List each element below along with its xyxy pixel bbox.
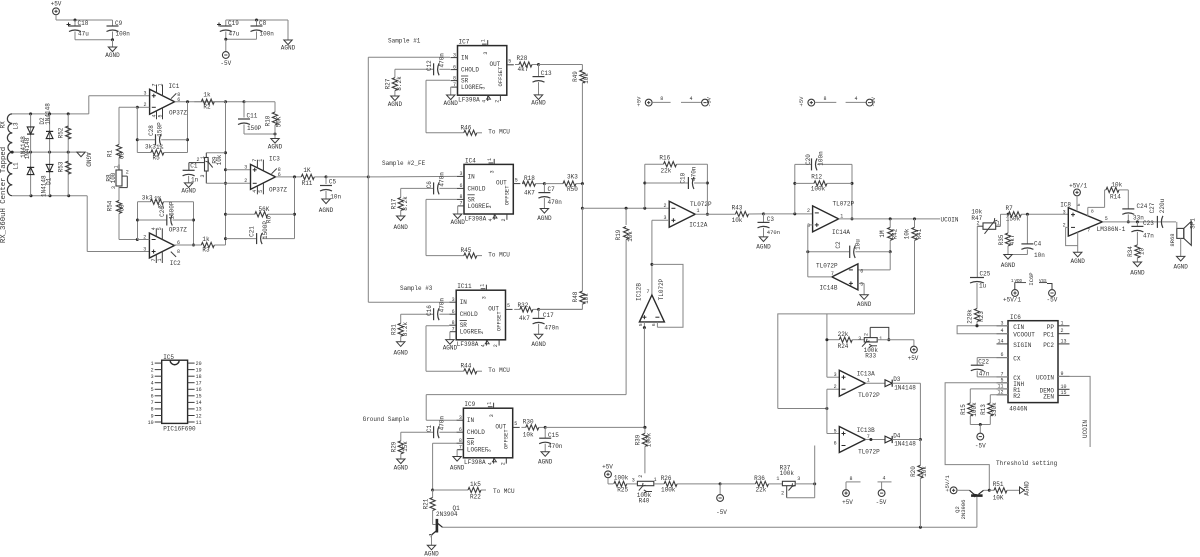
wire D3 to detector column bbox=[892, 383, 922, 441]
wire IC12B + down to R39 node bbox=[643, 328, 646, 429]
svg-text:3: 3 bbox=[483, 52, 489, 55]
wire RX center-tap rail bbox=[11, 151, 81, 154]
wire R25 to R40 bbox=[626, 483, 637, 485]
svg-text:To MCU: To MCU bbox=[488, 251, 510, 258]
svg-text:8: 8 bbox=[177, 249, 180, 255]
svg-text:C11: C11 bbox=[247, 113, 258, 120]
resistor R10 56K bbox=[244, 102, 283, 134]
svg-text:R34: R34 bbox=[1127, 246, 1134, 257]
wire RX bottom rail bbox=[12, 194, 87, 197]
resistor R46 bbox=[461, 124, 483, 135]
svg-text:C20: C20 bbox=[805, 154, 812, 165]
capacitor C4 10n bbox=[1008, 214, 1045, 259]
wire column S2 node to IC12A node bbox=[581, 184, 584, 210]
svg-text:2: 2 bbox=[126, 170, 129, 176]
ic U IC5 PIC16F690 bbox=[148, 354, 202, 433]
resistor R14 10k bbox=[1105, 182, 1129, 201]
svg-text:R36: R36 bbox=[754, 475, 765, 482]
svg-text:4: 4 bbox=[690, 96, 693, 102]
svg-text:AGND: AGND bbox=[1173, 264, 1188, 271]
wire to IC12A inverting input bbox=[582, 207, 669, 210]
svg-text:1: 1 bbox=[151, 361, 154, 367]
label RX_360uH Center Tapped bbox=[0, 147, 8, 243]
diode D6 1N4148 bbox=[20, 114, 34, 159]
resistor R19 10k bbox=[615, 208, 634, 242]
svg-text:3: 3 bbox=[111, 186, 117, 189]
svg-text:8: 8 bbox=[459, 438, 462, 444]
svg-text:1k5: 1k5 bbox=[470, 481, 481, 488]
resistor R1 68 bbox=[107, 145, 126, 160]
svg-text:47n: 47n bbox=[1143, 232, 1154, 239]
label To MCU (sample 1) bbox=[488, 129, 510, 136]
power pin 4 -5V (IC12) bbox=[681, 96, 712, 107]
svg-text:220k: 220k bbox=[967, 309, 974, 324]
svg-text:5: 5 bbox=[1105, 216, 1108, 222]
diode D4 1N4148 bbox=[885, 432, 916, 447]
power pin 8 +5V (IC14) bbox=[798, 96, 836, 107]
wire to IC2 inverting input bbox=[137, 239, 149, 241]
svg-text:12: 12 bbox=[196, 413, 202, 419]
wire IC13A- to IC13B+ tie bbox=[826, 389, 828, 433]
wire IC12A feedback left rail bbox=[643, 164, 646, 208]
resistor R50 3K3 bbox=[544, 173, 582, 192]
svg-text:LF398A: LF398A bbox=[458, 97, 480, 104]
svg-text:L3: L3 bbox=[12, 122, 19, 130]
svg-text:AGND: AGND bbox=[281, 45, 296, 52]
svg-text:R41: R41 bbox=[916, 228, 923, 239]
svg-text:R48: R48 bbox=[572, 291, 579, 302]
svg-text:220u: 220u bbox=[1159, 198, 1166, 213]
svg-text:R10: R10 bbox=[265, 115, 272, 126]
svg-text:3: 3 bbox=[459, 415, 462, 421]
inductor L1 (RX coil lower half) bbox=[7, 152, 19, 196]
resistor R35 4k7 bbox=[998, 214, 1016, 254]
svg-text:+5V: +5V bbox=[635, 96, 642, 107]
svg-text:4: 4 bbox=[480, 344, 486, 347]
svg-text:R11: R11 bbox=[302, 180, 313, 187]
svg-text:IC12B: IC12B bbox=[635, 283, 642, 301]
svg-text:14: 14 bbox=[997, 338, 1003, 344]
op-amp IC14B TL072P bbox=[816, 262, 863, 291]
resistor R20 10k bbox=[910, 440, 928, 528]
svg-text:10n: 10n bbox=[1034, 252, 1045, 259]
svg-text:IC13A: IC13A bbox=[857, 371, 875, 378]
svg-text:C12: C12 bbox=[426, 60, 433, 71]
op-amp IC12A TL072P bbox=[663, 201, 712, 229]
svg-text:Sample #3: Sample #3 bbox=[400, 285, 433, 292]
svg-text:R46: R46 bbox=[461, 124, 472, 131]
svg-text:R17: R17 bbox=[391, 198, 398, 209]
svg-text:AGND: AGND bbox=[1001, 262, 1016, 269]
svg-text:1n: 1n bbox=[191, 176, 199, 183]
resistor R18 4K7 bbox=[522, 175, 546, 197]
trimmer R40 100k bbox=[632, 475, 657, 505]
svg-text:R26: R26 bbox=[661, 475, 672, 482]
wire IC6 CIN/VCOOUT loop bbox=[957, 324, 1008, 333]
label Sample #3 bbox=[400, 285, 433, 292]
label To MCU (ground sample) bbox=[493, 488, 515, 495]
svg-text:R29: R29 bbox=[391, 441, 398, 452]
wire IC12A output bbox=[695, 213, 735, 215]
resistor R28 4k7 bbox=[515, 55, 540, 73]
svg-text:6: 6 bbox=[459, 427, 462, 433]
svg-text:R50: R50 bbox=[567, 186, 578, 193]
svg-text:IC13B: IC13B bbox=[857, 427, 875, 434]
svg-text:8: 8 bbox=[1091, 209, 1094, 215]
svg-text:L1: L1 bbox=[12, 162, 19, 170]
svg-text:1%: 1% bbox=[156, 144, 164, 151]
svg-text:C1: C1 bbox=[426, 425, 433, 433]
svg-text:R1: R1 bbox=[107, 150, 114, 158]
svg-text:150P: 150P bbox=[157, 122, 164, 137]
svg-text:R22: R22 bbox=[470, 494, 481, 501]
svg-text:+5V/1: +5V/1 bbox=[1069, 183, 1087, 190]
wire IC13B output bbox=[865, 438, 885, 441]
svg-text:-5V: -5V bbox=[975, 443, 986, 450]
svg-text:4: 4 bbox=[488, 218, 494, 221]
ground AGND right of C8 bbox=[281, 20, 296, 52]
svg-text:IN: IN bbox=[460, 299, 468, 306]
svg-text:SIGIN: SIGIN bbox=[1013, 342, 1031, 349]
svg-text:100k: 100k bbox=[971, 402, 978, 417]
svg-text:TL072P: TL072P bbox=[690, 201, 712, 208]
wire IC14A + stub bbox=[808, 224, 813, 226]
wire IC13A output bbox=[865, 382, 885, 384]
svg-text:LM386N-1: LM386N-1 bbox=[1097, 226, 1126, 233]
wire IC8 pin8 to R14 bbox=[1088, 190, 1105, 216]
svg-text:5: 5 bbox=[860, 281, 863, 287]
svg-text:UCOIN: UCOIN bbox=[1036, 374, 1054, 381]
label To MCU (sample 3) bbox=[488, 367, 510, 374]
svg-text:PC1: PC1 bbox=[1043, 332, 1054, 339]
svg-text:470n: 470n bbox=[544, 325, 559, 332]
wire RX top rail bbox=[12, 112, 89, 115]
ground AGND under R17 bbox=[393, 211, 408, 232]
svg-text:R23: R23 bbox=[978, 311, 985, 322]
svg-text:2: 2 bbox=[244, 178, 247, 184]
svg-text:1N4148: 1N4148 bbox=[44, 103, 51, 125]
svg-text:IC14A: IC14A bbox=[832, 229, 850, 236]
svg-text:R40: R40 bbox=[639, 498, 650, 505]
wire +5V rail bbox=[56, 15, 113, 22]
wire IC1 inverting input node bbox=[136, 106, 150, 109]
ground AGND under R10 bbox=[268, 134, 283, 151]
svg-text:7: 7 bbox=[151, 400, 154, 406]
resistor R4 3k3 1% bbox=[138, 195, 194, 210]
svg-text:Ground Sample: Ground Sample bbox=[363, 416, 410, 423]
svg-text:TL072P: TL072P bbox=[858, 392, 880, 399]
svg-text:470n: 470n bbox=[439, 53, 446, 68]
svg-text:47u: 47u bbox=[78, 31, 89, 38]
svg-text:2: 2 bbox=[976, 220, 979, 226]
svg-text:C16: C16 bbox=[426, 305, 433, 316]
svg-text:4k7: 4k7 bbox=[519, 315, 530, 322]
svg-text:10k: 10k bbox=[627, 231, 634, 242]
diode D2 1N4148 bbox=[39, 103, 53, 152]
transistor Q2 2N3906 bbox=[954, 490, 984, 519]
svg-text:3k3: 3k3 bbox=[142, 195, 153, 202]
svg-text:AGND: AGND bbox=[450, 219, 465, 226]
svg-text:3: 3 bbox=[200, 175, 206, 178]
svg-text:3: 3 bbox=[797, 476, 800, 482]
svg-text:1K: 1K bbox=[303, 167, 311, 174]
svg-text:C2: C2 bbox=[835, 241, 842, 249]
resistor R30 10k bbox=[521, 418, 546, 438]
svg-text:10u: 10u bbox=[854, 239, 861, 250]
wire IC12B feedback loop bbox=[643, 264, 683, 329]
svg-text:3: 3 bbox=[834, 372, 837, 378]
svg-text:+5V: +5V bbox=[51, 1, 62, 8]
wire IC3 output bbox=[276, 175, 302, 178]
svg-text:5: 5 bbox=[514, 421, 517, 427]
resistor R49 10k bbox=[572, 65, 590, 186]
wire IC2 feedback left rail bbox=[136, 202, 139, 240]
svg-text:R2: R2 bbox=[1013, 393, 1021, 400]
svg-text:To MCU: To MCU bbox=[488, 367, 510, 374]
svg-text:CIN: CIN bbox=[1013, 324, 1024, 331]
svg-text:10: 10 bbox=[148, 420, 154, 426]
svg-text:11: 11 bbox=[196, 420, 202, 426]
svg-text:D3: D3 bbox=[893, 376, 901, 383]
svg-text:R14: R14 bbox=[1110, 194, 1121, 201]
resistor R16 22k bbox=[645, 155, 708, 175]
svg-text:AGND: AGND bbox=[443, 100, 458, 107]
svg-text:8: 8 bbox=[660, 96, 663, 102]
svg-text:C7: C7 bbox=[548, 186, 556, 193]
resistor R21 bbox=[422, 490, 435, 511]
svg-text:7: 7 bbox=[452, 326, 455, 332]
svg-text:AGND: AGND bbox=[531, 100, 546, 107]
svg-text:9: 9 bbox=[151, 413, 154, 419]
wire R47 to C25 bbox=[976, 226, 978, 277]
svg-text:R13: R13 bbox=[980, 404, 987, 415]
svg-text:4K7: 4K7 bbox=[524, 189, 535, 196]
svg-text:8: 8 bbox=[459, 194, 462, 200]
ground AGND under R31 bbox=[393, 336, 408, 356]
net label VCOIN bbox=[941, 216, 959, 223]
svg-text:10k: 10k bbox=[921, 466, 928, 477]
svg-text:C22: C22 bbox=[978, 358, 989, 365]
svg-text:IC2: IC2 bbox=[170, 260, 181, 267]
svg-text:5: 5 bbox=[151, 387, 154, 393]
svg-text:1N4148: 1N4148 bbox=[894, 441, 916, 448]
capacitor C3 470n bbox=[756, 214, 780, 251]
ground AGND under IC8 bbox=[1066, 227, 1086, 265]
svg-text:13: 13 bbox=[1061, 338, 1067, 344]
svg-text:1k: 1k bbox=[203, 92, 211, 99]
power flag +5V/1 at Q2 bbox=[944, 475, 970, 494]
svg-text:IC14B: IC14B bbox=[820, 284, 838, 291]
svg-text:CHOLD: CHOLD bbox=[461, 67, 479, 74]
svg-text:10n: 10n bbox=[330, 194, 341, 201]
svg-text:Sample #1: Sample #1 bbox=[388, 38, 421, 45]
wire R2 leads bbox=[194, 101, 225, 103]
svg-text:IC7: IC7 bbox=[459, 39, 470, 46]
wire IC2 feedback right rail bbox=[192, 202, 195, 247]
svg-text:C23: C23 bbox=[1143, 220, 1154, 227]
svg-text:2: 2 bbox=[151, 367, 154, 373]
svg-text:1: 1 bbox=[481, 39, 487, 42]
svg-text:100n: 100n bbox=[116, 31, 131, 38]
resistor R39 100k bbox=[635, 427, 653, 473]
svg-text:C4: C4 bbox=[1034, 241, 1042, 248]
svg-text:C3: C3 bbox=[767, 216, 775, 223]
wire IC6 R1 pin bbox=[970, 389, 1008, 403]
wire Q1 collector bus bbox=[443, 526, 977, 529]
svg-text:IC3: IC3 bbox=[269, 156, 280, 163]
svg-text:R45: R45 bbox=[461, 247, 472, 254]
svg-text:C26: C26 bbox=[159, 206, 166, 217]
svg-text:LF398A: LF398A bbox=[457, 341, 479, 348]
resistor R54 68 bbox=[107, 200, 126, 213]
power pin 4 -5V (IC13) bbox=[876, 476, 892, 507]
capacitor C18 47u bbox=[67, 20, 90, 40]
svg-text:AGND: AGND bbox=[1024, 481, 1031, 496]
svg-text:-5V: -5V bbox=[870, 96, 877, 107]
resistor R6 56K bbox=[226, 206, 295, 223]
trimmer R37 100k bbox=[776, 464, 800, 498]
svg-text:R16: R16 bbox=[659, 155, 670, 162]
svg-text:3K3: 3K3 bbox=[567, 173, 578, 180]
wire Q2 collector node bbox=[984, 489, 991, 492]
svg-text:6: 6 bbox=[860, 268, 863, 274]
svg-text:8.2k: 8.2k bbox=[396, 76, 403, 91]
svg-text:IC1: IC1 bbox=[169, 83, 180, 90]
wire comparator input stubs bbox=[827, 389, 839, 433]
svg-text:47u: 47u bbox=[229, 31, 240, 38]
label Sample #1 bbox=[388, 38, 421, 45]
svg-text:C8: C8 bbox=[259, 20, 267, 27]
svg-text:R21: R21 bbox=[422, 498, 429, 509]
svg-text:R12: R12 bbox=[811, 173, 822, 180]
svg-text:IC11: IC11 bbox=[457, 283, 472, 290]
svg-text:To MCU: To MCU bbox=[488, 129, 510, 136]
svg-text:10K: 10K bbox=[993, 495, 1004, 502]
capacitor C7 470n bbox=[537, 184, 562, 222]
svg-text:R39: R39 bbox=[635, 434, 642, 445]
svg-text:AGND: AGND bbox=[393, 350, 408, 357]
ground AGND under R35/C4 bbox=[1001, 255, 1016, 270]
svg-text:R53: R53 bbox=[58, 161, 65, 172]
wire IC7 SR to R46 bbox=[426, 80, 464, 133]
svg-text:56K: 56K bbox=[259, 206, 270, 213]
svg-text:8: 8 bbox=[151, 407, 154, 413]
svg-text:D4: D4 bbox=[893, 432, 901, 439]
power flag +5V at R25 bbox=[602, 464, 613, 484]
trimmer R9 10k bbox=[189, 153, 226, 184]
svg-text:6: 6 bbox=[834, 440, 837, 446]
svg-text:IN: IN bbox=[468, 173, 476, 180]
svg-text:C27: C27 bbox=[1149, 202, 1156, 213]
svg-text:ZEN: ZEN bbox=[1043, 393, 1054, 400]
svg-text:-5V: -5V bbox=[705, 96, 712, 107]
resistor R23 220k bbox=[967, 309, 985, 328]
wire IC14A feedback left rail bbox=[793, 164, 796, 214]
svg-text:C10: C10 bbox=[680, 172, 687, 183]
svg-text:R32: R32 bbox=[518, 302, 529, 309]
svg-text:10k: 10k bbox=[732, 217, 743, 224]
capacitor C26 1500P bbox=[138, 201, 194, 225]
resistor R42 1M bbox=[879, 219, 898, 253]
capacitor C17 470n bbox=[531, 309, 559, 347]
svg-text:2: 2 bbox=[494, 100, 500, 103]
ground AGND under C9 bbox=[105, 40, 120, 59]
svg-text:OP37Z: OP37Z bbox=[169, 227, 187, 234]
wire sample3 out to column bbox=[539, 308, 583, 310]
svg-text:4: 4 bbox=[151, 381, 154, 387]
svg-text:3: 3 bbox=[858, 336, 861, 342]
capacitor C5 10n bbox=[319, 177, 342, 214]
label Sample #2_FE bbox=[382, 160, 426, 167]
power flag +5V supply bbox=[51, 1, 62, 15]
svg-text:3: 3 bbox=[482, 296, 488, 299]
power flag -5V supply bbox=[220, 39, 231, 67]
svg-text:8: 8 bbox=[452, 320, 455, 326]
svg-text:AGND: AGND bbox=[450, 465, 465, 472]
svg-text:R33: R33 bbox=[865, 353, 876, 360]
svg-text:R15: R15 bbox=[960, 404, 967, 415]
svg-text:100n: 100n bbox=[818, 151, 825, 166]
svg-text:CHOLD: CHOLD bbox=[460, 311, 478, 318]
svg-text:+5V: +5V bbox=[908, 355, 919, 362]
wire R37 node to IC13B inverting input bbox=[814, 446, 816, 484]
resistor R43 10k bbox=[732, 205, 765, 224]
resistor R44 bbox=[461, 363, 483, 374]
trimmer R33 100k bbox=[858, 327, 890, 359]
svg-text:20: 20 bbox=[196, 361, 202, 367]
svg-text:15k: 15k bbox=[402, 441, 409, 452]
capacitor C20 100n bbox=[795, 151, 852, 170]
svg-text:IC8: IC8 bbox=[1060, 201, 1071, 208]
wire IC14B output to IC14A + input bbox=[807, 225, 809, 277]
svg-text:R24: R24 bbox=[838, 343, 849, 350]
label Threshold setting bbox=[996, 460, 1058, 467]
op-amp IC14A TL072P bbox=[807, 201, 855, 237]
svg-text:3: 3 bbox=[486, 449, 492, 452]
svg-text:2: 2 bbox=[1061, 328, 1064, 334]
svg-text:15: 15 bbox=[1061, 390, 1067, 396]
svg-text:5: 5 bbox=[515, 177, 518, 183]
capacitor C25 1u bbox=[970, 270, 991, 308]
svg-text:4: 4 bbox=[855, 96, 858, 102]
svg-text:1: 1 bbox=[200, 156, 206, 159]
diode D5 1N4148 bbox=[27, 152, 34, 196]
svg-text:8.2k: 8.2k bbox=[402, 322, 409, 337]
resistor R17 8.2k bbox=[391, 196, 410, 211]
svg-text:10k: 10k bbox=[1111, 182, 1122, 189]
wire -5V group top rail bbox=[226, 19, 288, 22]
svg-text:14: 14 bbox=[196, 400, 202, 406]
wire vertical trunk from R2 node bbox=[224, 102, 227, 245]
wire trunk to IC7 IN bbox=[368, 56, 450, 58]
svg-text:3: 3 bbox=[143, 91, 146, 97]
resistor R41 10k bbox=[904, 219, 924, 314]
svg-text:R27: R27 bbox=[385, 78, 392, 89]
svg-text:100k: 100k bbox=[646, 432, 653, 447]
resistor R48 10k bbox=[539, 291, 591, 309]
svg-text:3: 3 bbox=[143, 246, 146, 252]
capacitor C14 470n on IC9 CHOLD bbox=[401, 416, 457, 441]
svg-text:OFFSET: OFFSET bbox=[503, 185, 510, 206]
capacitor C1 1n bbox=[181, 162, 198, 194]
ic U IC6 4046N PLL bbox=[997, 314, 1070, 413]
svg-text:CX: CX bbox=[1013, 356, 1021, 363]
wire sample distribution trunk bbox=[367, 57, 369, 302]
svg-text:100n: 100n bbox=[260, 31, 275, 38]
capacitor C24 33n bbox=[1122, 190, 1147, 224]
wire D4 to detector column bbox=[892, 439, 920, 441]
wire IC6 UCOIN out / net label UCOIN bbox=[1058, 376, 1090, 447]
